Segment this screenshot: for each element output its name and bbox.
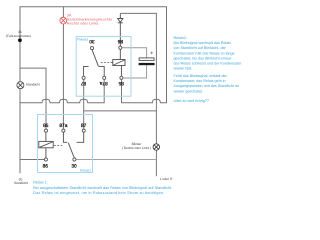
relay2 pin 87a: [103, 76, 106, 79]
relay2 pin 85: [120, 76, 123, 79]
node 31 junction dot: [18, 38, 22, 42]
svg-text:Standlicht: Standlicht: [26, 83, 40, 87]
svg-text:85: 85: [118, 80, 124, 86]
svg-text:87: 87: [81, 80, 87, 86]
svg-text:30: 30: [71, 164, 77, 170]
note text right Relais2 paragraph: [174, 36, 243, 103]
svg-text:Bei ausgeschaltetem Standlicht: Bei ausgeschaltetem Standlicht wechselt …: [33, 186, 172, 190]
relay2 actuate dashed link: [101, 62, 113, 64]
relay2 coil wires: [120, 49, 121, 76]
relay1 pin 87a: [62, 129, 65, 132]
wire relay1 pin30 to blinker line: [76, 159, 156, 161]
wire ground loop: top wire, right outer vertical, wire A segment2, left rail: [20, 7, 167, 174]
relay2 contact stub 87a: [99, 66, 105, 76]
relay1 coil: [39, 141, 53, 147]
svg-text:Rechts oder Links: Rechts oder Links: [67, 22, 99, 26]
svg-text:85: 85: [43, 123, 49, 129]
svg-text:Relais2: Relais2: [77, 38, 88, 42]
svg-text:86: 86: [43, 164, 49, 170]
svg-text:Alles so weit richtig??: Alles so weit richtig??: [174, 99, 209, 103]
relay1 coil wires: [45, 132, 47, 158]
wire B relay2 pin87 branch to blinker line: [84, 110, 157, 112]
relay2 contact stub 87: [84, 66, 89, 76]
svg-text:Standlicht: Standlicht: [14, 181, 28, 185]
relay1 contact stub 87a: [63, 132, 67, 142]
capacitor C1 polarized: [139, 58, 154, 61]
wire branch rail to relay1 pin 85: [20, 68, 46, 129]
svg-text:das Relais schliesst und der K: das Relais schliesst und der Kondensator: [174, 62, 243, 66]
relay1 switch arm from pin 30: [68, 143, 74, 158]
relay2 pin 86: [119, 46, 122, 49]
svg-text:87: 87: [81, 123, 87, 129]
relay1 actuate dashed link: [54, 145, 62, 147]
wire A segment1 with hops to relay2 87a: [20, 79, 104, 102]
svg-text:Bei Blinksignal wechselt das R: Bei Blinksignal wechselt das Relais: [174, 41, 232, 45]
svg-text:87a: 87a: [59, 123, 67, 129]
svg-text:L oder R: L oder R: [160, 177, 173, 181]
diode D1: [118, 13, 123, 46]
relay2 pin 30: [90, 47, 93, 50]
relay1 pin 85: [44, 129, 47, 132]
relay1 pin 86: [44, 158, 47, 161]
svg-text:87a: 87a: [99, 80, 107, 86]
svg-text:Das Relais ist eingesetzt, um: Das Relais ist eingesetzt, um in Ruhezus…: [33, 191, 164, 195]
relay2 pin 87: [82, 76, 85, 79]
lamp Standlicht: [17, 82, 24, 89]
svg-text:von Standlicht auf Blinklicht,: von Standlicht auf Blinklicht, der: [174, 46, 227, 50]
svg-text:Relais2:: Relais2:: [174, 36, 187, 40]
wire side marker lamp vertical to relay1 pin 87a: [62, 7, 64, 129]
capacitor plus sign: [150, 52, 153, 55]
svg-text:Kondensator, das Relais geht i: Kondensator, das Relais geht in: [174, 79, 226, 83]
svg-text:wieder geschaltet.: wieder geschaltet.: [174, 89, 204, 93]
svg-text:geschaltet, bis das Blinklicht: geschaltet, bis das Blinklicht erneut: [174, 56, 232, 60]
wire relay2 pin87 down to relay1 pin87: [83, 79, 85, 129]
relay1 contact stub 87: [77, 132, 84, 142]
relay1 pin 30: [73, 158, 76, 161]
svg-text:30: 30: [89, 38, 95, 44]
wire rail to relay1 pin86: [20, 159, 44, 161]
wire capacitor bottom to relay2 pin85: [123, 65, 147, 78]
svg-text:Ausgangsposition und das Stand: Ausgangsposition und das Standlicht ist: [174, 84, 239, 88]
relay2 switch arm from pin 30: [92, 50, 98, 66]
svg-text:Relais 1:: Relais 1:: [33, 181, 48, 185]
relay1 pin 87: [82, 129, 85, 132]
wire diode top to V1 blinker line: [120, 13, 156, 176]
svg-text:( Rechts oder Links ): ( Rechts oder Links ): [122, 146, 151, 150]
svg-text:Fehlt das Blinksignal, entlädt: Fehlt das Blinksignal, entlädt der: [174, 74, 228, 78]
svg-text:(Fahrzeugmasse): (Fahrzeugmasse): [6, 34, 31, 38]
svg-text:86: 86: [117, 38, 123, 44]
relay2 box: [76, 37, 131, 97]
svg-text:Kondensator hält das Relais so: Kondensator hält das Relais so lange: [174, 51, 235, 55]
svg-text:wieder lädt.: wieder lädt.: [174, 67, 193, 71]
svg-text:Relais1: Relais1: [80, 168, 91, 172]
wire relay2 pin86 to capacitor top: [122, 48, 147, 58]
relay1 box: [38, 115, 93, 173]
note text bottom Relais1 paragraph: [33, 181, 172, 196]
lamp side marker (red): [60, 17, 67, 24]
relay2 coil: [113, 60, 125, 66]
lamp Blinker: [153, 144, 159, 150]
